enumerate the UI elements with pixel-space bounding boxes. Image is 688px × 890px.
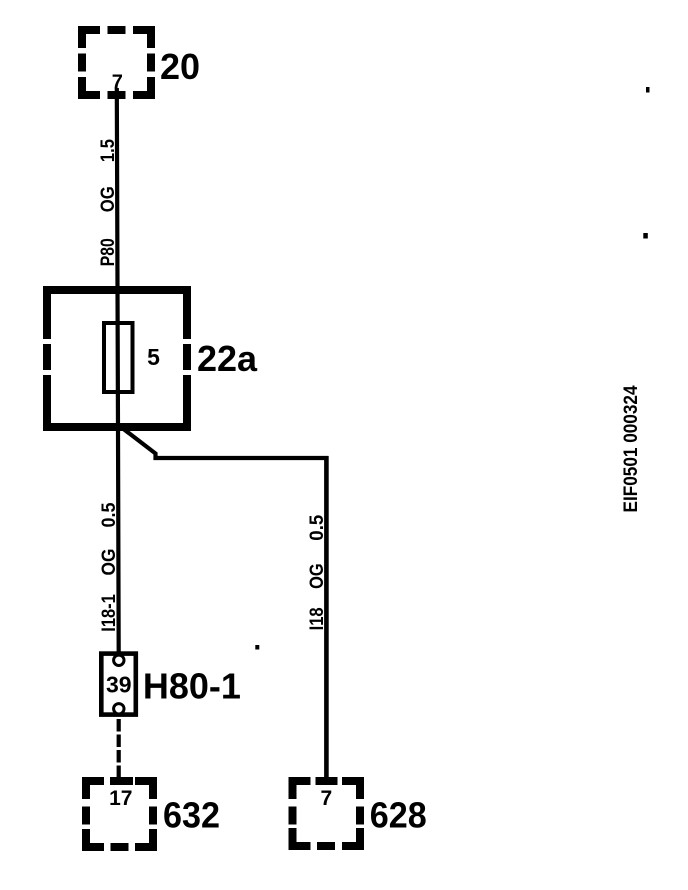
svg-text:I18: I18: [307, 607, 328, 630]
connector box 20: [78, 26, 155, 99]
svg-text:22a: 22a: [197, 338, 258, 379]
branch wire from fuse output to node: [118, 425, 328, 458]
svg-text:OG: OG: [98, 186, 119, 212]
svg-text:0.5: 0.5: [99, 502, 120, 527]
speck dot near H80-1: [255, 645, 259, 650]
svg-text:632: 632: [163, 794, 220, 835]
pin circle bottom of H80-1: [114, 704, 124, 714]
wire I18 to connector 628: [324, 456, 329, 781]
svg-text:EIF0501 000324: EIF0501 000324: [621, 385, 642, 512]
svg-text:628: 628: [370, 794, 427, 835]
fuse box 22a: [43, 286, 191, 431]
svg-text:0.5: 0.5: [307, 514, 328, 540]
svg-text:39: 39: [106, 672, 132, 698]
speck dot mid right: [643, 233, 648, 239]
svg-text:OG: OG: [307, 563, 328, 589]
svg-text:7: 7: [320, 787, 332, 810]
svg-text:P80: P80: [98, 238, 119, 266]
speck dot top right: [646, 87, 650, 93]
dashed wire to connector 632: [117, 719, 121, 781]
svg-text:5: 5: [147, 344, 160, 370]
wire P80 from connector 20 to fuse box 22a: [117, 88, 119, 656]
svg-text:20: 20: [160, 46, 200, 87]
svg-text:H80-1: H80-1: [143, 666, 241, 707]
connector box 628: [289, 777, 365, 850]
connector box 632: [82, 777, 157, 851]
svg-text:I18-1: I18-1: [99, 594, 120, 632]
svg-text:17: 17: [109, 787, 132, 810]
pin circle top of H80-1: [114, 655, 124, 665]
svg-text:OG: OG: [99, 549, 120, 576]
svg-text:1.5: 1.5: [98, 139, 119, 162]
connector H80-1 body: [101, 654, 136, 715]
fuse element F5: [104, 323, 133, 392]
